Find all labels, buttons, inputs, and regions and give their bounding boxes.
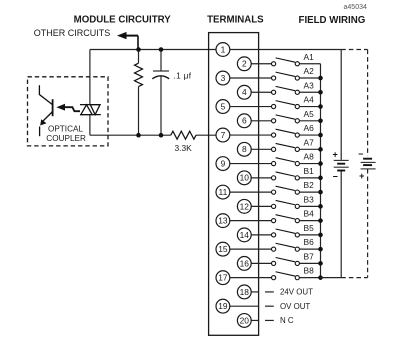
svg-text:B3: B3 bbox=[304, 194, 315, 204]
svg-text:N C: N C bbox=[280, 316, 294, 325]
svg-text:4: 4 bbox=[242, 87, 247, 97]
svg-text:OV OUT: OV OUT bbox=[280, 302, 310, 311]
svg-text:17: 17 bbox=[218, 273, 228, 283]
svg-text:A1: A1 bbox=[304, 52, 315, 62]
svg-text:B7: B7 bbox=[304, 251, 315, 261]
svg-text:A4: A4 bbox=[304, 95, 315, 105]
svg-text:5: 5 bbox=[221, 101, 226, 111]
svg-text:20: 20 bbox=[240, 315, 250, 325]
svg-text:14: 14 bbox=[240, 230, 250, 240]
svg-text:−: − bbox=[358, 149, 363, 159]
svg-text:A7: A7 bbox=[304, 137, 315, 147]
svg-text:A6: A6 bbox=[304, 123, 315, 133]
svg-text:A2: A2 bbox=[304, 66, 315, 76]
svg-text:a45034: a45034 bbox=[344, 4, 367, 11]
svg-text:2: 2 bbox=[242, 59, 247, 69]
svg-text:16: 16 bbox=[240, 258, 250, 268]
svg-text:TERMINALS: TERMINALS bbox=[207, 15, 264, 26]
svg-text:7: 7 bbox=[221, 130, 226, 140]
svg-text:B8: B8 bbox=[304, 266, 315, 276]
svg-text:A8: A8 bbox=[304, 152, 315, 162]
svg-text:24V OUT: 24V OUT bbox=[280, 288, 313, 297]
svg-text:A5: A5 bbox=[304, 109, 315, 119]
svg-text:19: 19 bbox=[218, 301, 228, 311]
svg-text:10: 10 bbox=[240, 173, 250, 183]
svg-text:B1: B1 bbox=[304, 166, 315, 176]
svg-text:FIELD WIRING: FIELD WIRING bbox=[299, 15, 366, 26]
svg-text:18: 18 bbox=[240, 287, 250, 297]
svg-text:11: 11 bbox=[219, 187, 228, 197]
svg-text:B4: B4 bbox=[304, 209, 315, 219]
svg-text:COUPLER: COUPLER bbox=[46, 134, 86, 143]
svg-text:B2: B2 bbox=[304, 180, 315, 190]
svg-text:3: 3 bbox=[221, 73, 226, 83]
svg-text:12: 12 bbox=[240, 201, 250, 211]
svg-text:B5: B5 bbox=[304, 223, 315, 233]
svg-text:+: + bbox=[332, 150, 337, 160]
svg-text:MODULE CIRCUITRY: MODULE CIRCUITRY bbox=[74, 15, 172, 26]
svg-text:A3: A3 bbox=[304, 80, 315, 90]
svg-text:OPTICAL: OPTICAL bbox=[48, 125, 83, 134]
svg-text:+: + bbox=[359, 171, 364, 181]
svg-text:−: − bbox=[333, 171, 338, 181]
svg-text:9: 9 bbox=[221, 158, 226, 168]
svg-text:B6: B6 bbox=[304, 237, 315, 247]
svg-text:6: 6 bbox=[242, 116, 247, 126]
svg-text:8: 8 bbox=[242, 144, 247, 154]
svg-text:.1 μf: .1 μf bbox=[174, 71, 192, 81]
svg-text:1: 1 bbox=[221, 44, 226, 54]
svg-text:15: 15 bbox=[218, 244, 228, 254]
svg-text:OTHER CIRCUITS: OTHER CIRCUITS bbox=[34, 28, 111, 38]
svg-text:3.3K: 3.3K bbox=[175, 143, 193, 153]
svg-text:13: 13 bbox=[218, 216, 228, 226]
